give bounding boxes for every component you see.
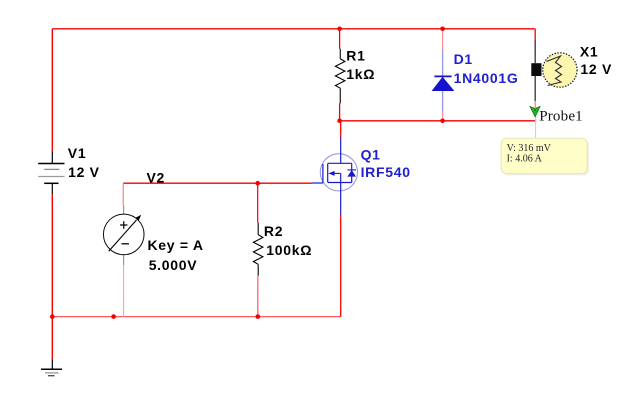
diode D1 1N4001G [432, 49, 455, 111]
svg-text:1kΩ: 1kΩ [346, 66, 375, 82]
svg-text:IRF540: IRF540 [361, 164, 411, 180]
junction dot (ground tee) [50, 314, 55, 319]
junction dot (R2 top / gate row) [255, 181, 260, 186]
svg-text:1N4001G: 1N4001G [454, 70, 519, 86]
svg-text:R2: R2 [264, 223, 283, 239]
probe leader line [535, 117, 537, 139]
resistor R2 [253, 223, 263, 276]
svg-text:V1: V1 [68, 145, 87, 161]
svg-text:Probe1: Probe1 [539, 108, 583, 124]
wire D1 top pink lead [442, 29, 444, 49]
svg-text:R1: R1 [346, 48, 365, 64]
probe callout box shadow [503, 140, 589, 175]
wire gate row (V2 to Q1 gate) [123, 182, 312, 184]
junction dot (D1 bottom) [440, 119, 445, 124]
wire V2 top lead red [122, 183, 124, 205]
probe callout box [501, 138, 587, 173]
source V2 (interactive key source) [103, 205, 144, 265]
wire V2 bottom lead light red [123, 265, 125, 317]
svg-text:12 V: 12 V [580, 61, 612, 77]
svg-text:V2: V2 [147, 170, 166, 186]
ground [41, 360, 62, 376]
wire left vertical lower (V1 minus to ground tee) [51, 194, 53, 359]
junction dot (R1 bottom) [337, 119, 342, 124]
junction dot (V2 bottom) [111, 314, 116, 319]
wire R1 bottom lead red [339, 103, 341, 120]
junction dot (R1 top) [337, 27, 342, 32]
svg-text:Q1: Q1 [361, 147, 381, 163]
wire R2 bottom lead red [257, 276, 259, 317]
resistor R1 [335, 49, 345, 104]
lamp X1 [531, 40, 577, 113]
junction dot (R2 bottom) [255, 314, 260, 319]
junction dot (D1 top) [440, 27, 445, 32]
transistor Q1 IRF540 MOSFET [312, 137, 358, 216]
wire R1 top lead red [339, 29, 341, 49]
wire R2 top lead red [257, 183, 259, 223]
probe arrow Probe1 [530, 106, 540, 116]
svg-text:12 V: 12 V [68, 164, 100, 180]
wire Q1 drain red segment [340, 121, 342, 137]
svg-text:I: 4.06 A: I: 4.06 A [507, 153, 543, 164]
svg-text:100kΩ: 100kΩ [266, 242, 312, 258]
wire D1 bottom pink lead [442, 111, 444, 121]
svg-text:X1: X1 [580, 43, 599, 59]
wire top horizontal net V1+ to lamp [52, 28, 535, 30]
wire mid horizontal (R1/D1 bottom to probe) [340, 120, 536, 122]
wire left vertical upper (V1 top lead run) [51, 29, 53, 152]
svg-text:D1: D1 [454, 51, 473, 67]
svg-text:5.000V: 5.000V [149, 257, 198, 273]
svg-text:V: 316 mV: V: 316 mV [507, 143, 552, 154]
battery V1 [38, 152, 64, 195]
wire bottom horizontal net [52, 316, 340, 318]
svg-text:Key = A: Key = A [148, 237, 204, 253]
wire Q1 source column [340, 216, 342, 317]
wire lamp column red segment [534, 29, 536, 40]
